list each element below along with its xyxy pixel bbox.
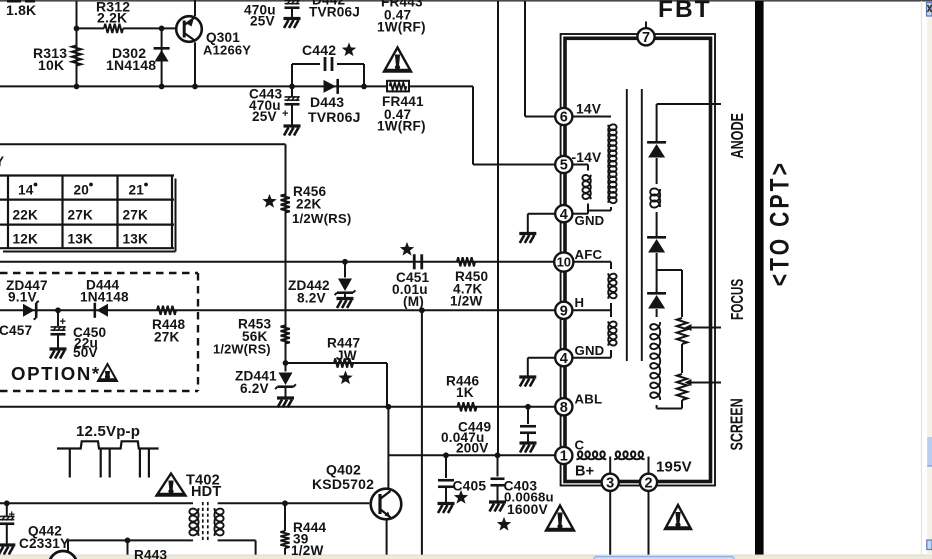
svg-text:-14V: -14V bbox=[572, 150, 603, 165]
svg-text:20: 20 bbox=[74, 183, 90, 198]
svg-text:1: 1 bbox=[560, 449, 568, 465]
svg-text:TVR06J: TVR06J bbox=[308, 109, 361, 125]
svg-text:C405: C405 bbox=[453, 479, 487, 494]
svg-text:FBT: FBT bbox=[658, 0, 712, 23]
svg-text:25V: 25V bbox=[252, 109, 277, 124]
svg-text:8.2V: 8.2V bbox=[297, 291, 326, 306]
svg-text:14V: 14V bbox=[576, 102, 602, 117]
svg-text:JW: JW bbox=[336, 348, 357, 363]
svg-text:R443: R443 bbox=[134, 548, 168, 559]
svg-text:14: 14 bbox=[18, 183, 34, 198]
svg-text:2: 2 bbox=[644, 476, 652, 492]
svg-text:22K: 22K bbox=[13, 207, 39, 222]
svg-text:27K: 27K bbox=[154, 330, 180, 345]
svg-text:+: + bbox=[60, 316, 66, 328]
svg-text:A1266Y: A1266Y bbox=[203, 43, 251, 58]
svg-text:13K: 13K bbox=[68, 232, 94, 247]
svg-text:+: + bbox=[282, 108, 288, 120]
svg-text:HDT: HDT bbox=[191, 484, 221, 500]
svg-text:27K: 27K bbox=[123, 207, 149, 222]
svg-text:12K: 12K bbox=[13, 232, 39, 247]
svg-text:+: + bbox=[9, 509, 15, 521]
svg-text:9.1V: 9.1V bbox=[8, 290, 37, 305]
svg-text:1/2W(RS): 1/2W(RS) bbox=[213, 342, 271, 357]
svg-text:KSD5702: KSD5702 bbox=[312, 476, 374, 492]
svg-text:1N4148: 1N4148 bbox=[80, 290, 129, 305]
svg-text:7: 7 bbox=[642, 30, 650, 46]
svg-text:13K: 13K bbox=[123, 232, 149, 247]
svg-text:1.8K: 1.8K bbox=[6, 2, 36, 18]
svg-text:10: 10 bbox=[557, 255, 571, 270]
svg-text:TVR06J: TVR06J bbox=[309, 5, 360, 20]
svg-text:1/2W: 1/2W bbox=[450, 294, 483, 309]
svg-text:50V: 50V bbox=[73, 345, 98, 360]
svg-text:C2331Y: C2331Y bbox=[19, 536, 69, 551]
svg-text:1W(RF): 1W(RF) bbox=[377, 20, 426, 35]
svg-text:9: 9 bbox=[560, 304, 568, 320]
svg-text:22K: 22K bbox=[296, 197, 322, 212]
svg-text:1/2W: 1/2W bbox=[291, 543, 324, 558]
svg-text:B+: B+ bbox=[575, 464, 594, 480]
svg-text:OPTION*: OPTION* bbox=[11, 363, 101, 384]
svg-text:H: H bbox=[575, 295, 585, 310]
svg-text:C: C bbox=[575, 438, 585, 453]
svg-text:Y: Y bbox=[0, 154, 4, 169]
svg-text:5: 5 bbox=[560, 158, 568, 174]
svg-text:D443: D443 bbox=[310, 94, 344, 110]
svg-text:AFC: AFC bbox=[575, 247, 603, 262]
svg-text:10K: 10K bbox=[38, 57, 64, 73]
svg-text:3: 3 bbox=[606, 476, 614, 492]
svg-text:6.2V: 6.2V bbox=[240, 381, 269, 396]
svg-text:ABL: ABL bbox=[575, 392, 603, 407]
svg-text:SCREEN: SCREEN bbox=[727, 398, 747, 450]
svg-text:1N4148: 1N4148 bbox=[106, 57, 156, 73]
svg-text:<TO CPT>: <TO CPT> bbox=[765, 160, 795, 286]
svg-text:4: 4 bbox=[560, 351, 568, 367]
svg-text:1K: 1K bbox=[456, 385, 474, 400]
svg-text:4: 4 bbox=[560, 207, 568, 223]
svg-text:27K: 27K bbox=[68, 207, 94, 222]
svg-text:25V: 25V bbox=[250, 14, 275, 29]
svg-text:200V: 200V bbox=[456, 441, 489, 456]
svg-text:21: 21 bbox=[129, 183, 145, 198]
svg-text:2.2K: 2.2K bbox=[97, 10, 127, 26]
svg-text:C457: C457 bbox=[0, 323, 32, 338]
svg-text:ANODE: ANODE bbox=[728, 113, 748, 158]
svg-text:FOCUS: FOCUS bbox=[728, 279, 748, 320]
svg-text:C442: C442 bbox=[302, 42, 336, 58]
svg-text:1W(RF): 1W(RF) bbox=[377, 119, 426, 134]
svg-text:195V: 195V bbox=[656, 459, 692, 476]
svg-text:1600V: 1600V bbox=[507, 502, 548, 517]
svg-text:GND: GND bbox=[575, 343, 605, 358]
svg-text:1/2W(RS): 1/2W(RS) bbox=[292, 211, 351, 226]
svg-text:6: 6 bbox=[560, 110, 568, 126]
svg-text:12.5Vp-p: 12.5Vp-p bbox=[76, 423, 140, 440]
svg-text:(M): (M) bbox=[403, 294, 424, 309]
svg-text:GND: GND bbox=[575, 213, 605, 228]
svg-text:8: 8 bbox=[560, 400, 568, 416]
